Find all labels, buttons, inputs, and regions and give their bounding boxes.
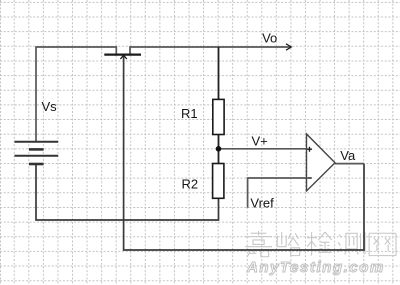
svg-text:Vs: Vs bbox=[42, 99, 58, 114]
svg-text:Vo: Vo bbox=[262, 31, 277, 46]
svg-text:Va: Va bbox=[340, 148, 356, 163]
svg-text:R2: R2 bbox=[182, 177, 199, 192]
svg-text:V+: V+ bbox=[252, 134, 268, 149]
svg-text:Vref: Vref bbox=[250, 196, 274, 211]
svg-text:R1: R1 bbox=[181, 106, 198, 121]
svg-text:AnyTesting.com: AnyTesting.com bbox=[246, 259, 385, 276]
